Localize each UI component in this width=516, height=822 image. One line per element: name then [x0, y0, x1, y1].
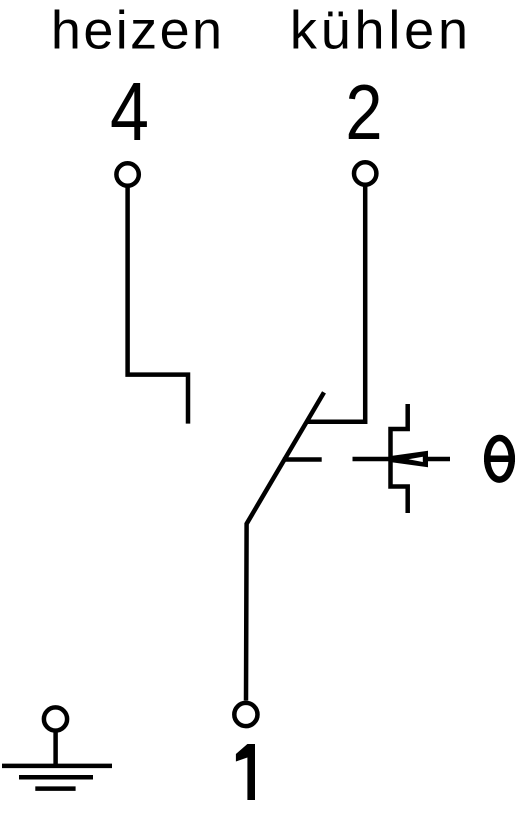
svg-text:kühlen: kühlen: [290, 0, 472, 60]
svg-text:2: 2: [345, 69, 382, 156]
svg-text:heizen: heizen: [51, 0, 225, 60]
svg-text:4: 4: [110, 65, 149, 158]
